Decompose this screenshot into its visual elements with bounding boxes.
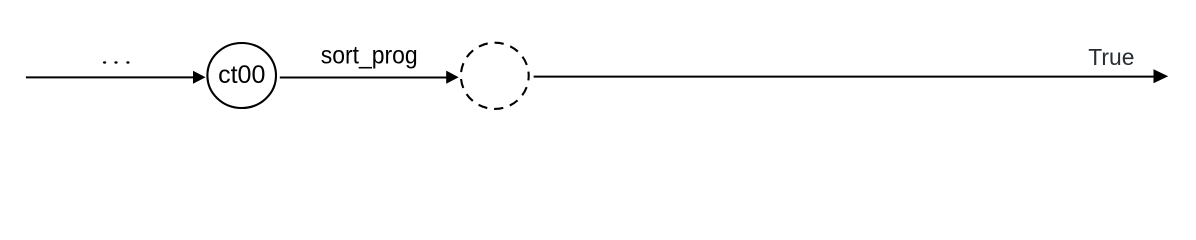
arrowhead into anonymous node — [446, 71, 459, 84]
svg-text:ct00: ct00 — [218, 61, 265, 89]
state node anonymous (dashed ellipse) — [461, 43, 529, 109]
svg-text:True: True — [1088, 44, 1134, 70]
arrowhead at True — [1154, 69, 1169, 83]
wire: incoming edge to ct00 — [26, 76, 194, 78]
svg-text:sort_prog: sort_prog — [321, 42, 418, 70]
arrowhead into ct00 — [193, 71, 206, 84]
state node ct00 (solid ellipse) — [207, 43, 276, 108]
edge label "..." — [103, 61, 130, 63]
wire: edge anonymous node to True — [534, 76, 1155, 78]
wire: edge ct00 to anonymous node — [280, 77, 447, 79]
